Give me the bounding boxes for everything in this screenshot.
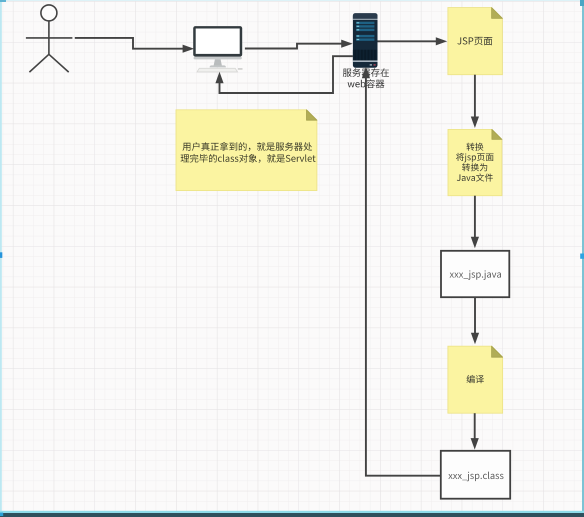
left edge blue dot (0, 252, 2, 258)
wire java box to compile note (474, 297, 476, 333)
arrowhead into compile note (472, 333, 479, 343)
top-right corner mark (580, 0, 584, 6)
box: xxx_jsp.class (441, 451, 510, 499)
top edge line (0, 0, 584, 1)
label: note line2 (181, 154, 316, 163)
bottom light line (0, 511, 584, 513)
label: note line1 (183, 142, 313, 151)
right edge strip (582, 0, 584, 517)
label: Java文件 (457, 173, 493, 181)
label: xxx_jsp.java (450, 270, 501, 280)
label: 转换为 (462, 163, 487, 171)
arrowhead into java box (472, 237, 479, 247)
wire JSP note to convert note (474, 75, 476, 118)
monitor (PC) (193, 26, 242, 72)
note: convert jsp to java (448, 129, 502, 195)
arrowhead into monitor left (183, 45, 193, 52)
note: JSP page (448, 8, 503, 75)
label: 将jsp页面 (456, 153, 494, 163)
server tower (web container) (353, 13, 378, 67)
bottom-left blue dot (0, 513, 3, 516)
label: server text line2 (348, 79, 385, 88)
wire actor to monitor (75, 38, 184, 49)
box: xxx_jsp.java (441, 251, 509, 297)
label: JSP页面 (457, 37, 492, 45)
note: compile (448, 346, 503, 413)
arrowhead into server left (342, 40, 352, 47)
arrowhead into convert note (472, 117, 479, 127)
arrowhead into server bottom (363, 68, 370, 78)
label: server text line1 (343, 68, 389, 77)
top-left blue dash (0, 0, 6, 2)
label: 转换 (467, 143, 484, 151)
actor (user stick figure) (26, 5, 73, 72)
arrowhead into JSP note (436, 38, 446, 45)
wire convert note to java box (474, 196, 476, 238)
wire monitor to server (245, 44, 342, 49)
left edge strip (0, 0, 2, 517)
label: 编译 (467, 375, 484, 383)
label: xxx_jsp.class (448, 472, 503, 482)
arrowhead into monitor bottom (216, 73, 223, 83)
bottom dark bar (0, 513, 584, 517)
wire server to monitor bottom (220, 56, 353, 93)
right edge teal dot (580, 254, 584, 259)
note: user gets servlet class explanation (176, 110, 317, 191)
wire server to JSP note (378, 40, 437, 42)
wire class box back to server (366, 77, 441, 476)
wire compile note to class box (474, 413, 476, 439)
arrowhead into class box (471, 439, 478, 449)
